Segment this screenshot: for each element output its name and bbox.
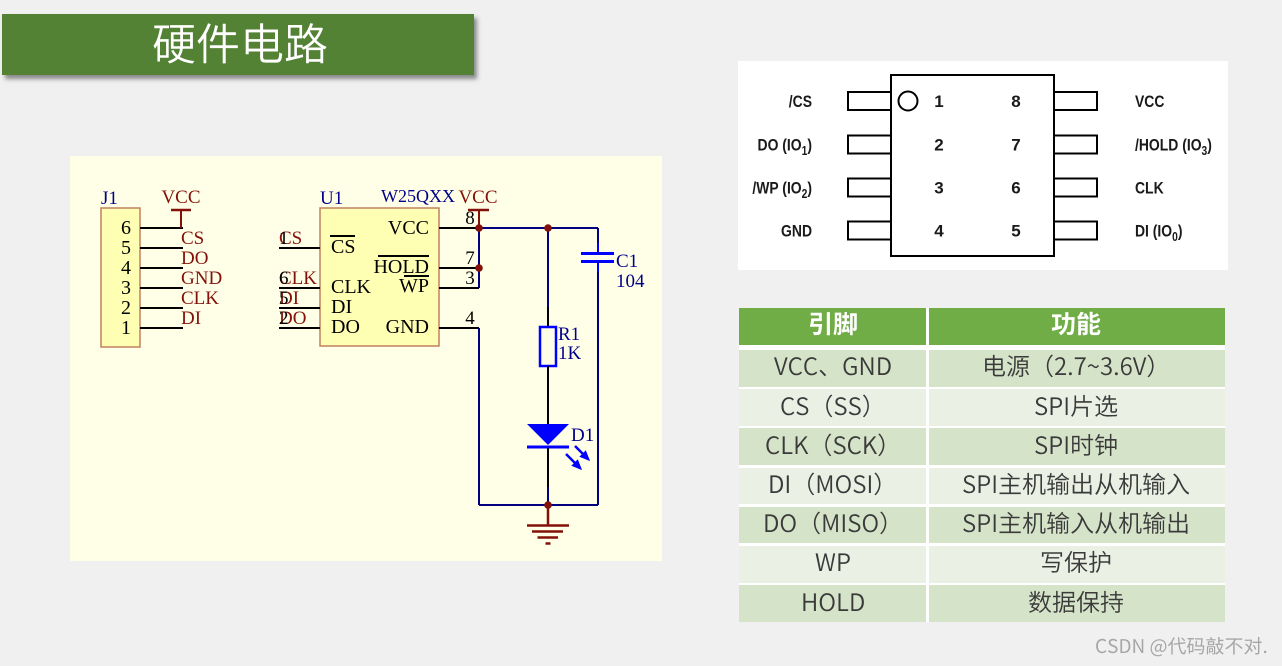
svg-text:VCC: VCC	[458, 187, 497, 208]
svg-text:GND: GND	[181, 268, 222, 289]
svg-text:J1: J1	[101, 188, 118, 209]
svg-text:7: 7	[465, 248, 475, 269]
svg-text:/HOLD (IO3): /HOLD (IO3)	[1135, 136, 1212, 158]
svg-text:CLK: CLK	[331, 276, 372, 298]
svg-text:4: 4	[121, 257, 131, 279]
svg-text:104: 104	[616, 271, 645, 292]
svg-text:DI (IO0): DI (IO0)	[1135, 222, 1182, 244]
svg-text:D1: D1	[571, 425, 594, 446]
svg-text:C1: C1	[616, 251, 638, 272]
svg-text:3: 3	[465, 268, 475, 289]
svg-text:5: 5	[121, 237, 131, 259]
svg-text:VCC: VCC	[1135, 93, 1164, 112]
svg-text:8: 8	[1011, 92, 1020, 111]
svg-text:U1: U1	[320, 188, 343, 209]
svg-text:/CS: /CS	[789, 93, 812, 112]
svg-text:1: 1	[121, 317, 131, 339]
svg-text:CLK: CLK	[181, 288, 219, 309]
svg-text:/WP (IO2): /WP (IO2)	[752, 179, 812, 201]
svg-text:4: 4	[934, 222, 944, 241]
svg-text:CS: CS	[181, 228, 204, 249]
svg-text:2: 2	[934, 136, 943, 155]
svg-text:CS: CS	[331, 236, 355, 258]
svg-text:DI: DI	[331, 296, 352, 318]
svg-text:6: 6	[279, 268, 289, 289]
svg-text:CLK: CLK	[1135, 179, 1164, 198]
svg-text:DO (IO1): DO (IO1)	[758, 136, 812, 158]
svg-text:DI: DI	[181, 308, 201, 329]
svg-text:1: 1	[279, 228, 289, 249]
svg-text:1K: 1K	[558, 343, 582, 364]
svg-text:6: 6	[121, 217, 131, 239]
svg-text:2: 2	[121, 297, 131, 319]
svg-text:6: 6	[1011, 179, 1020, 198]
svg-text:5: 5	[1011, 222, 1020, 241]
svg-text:7: 7	[1011, 136, 1020, 155]
svg-text:3: 3	[934, 179, 943, 198]
svg-text:4: 4	[465, 308, 475, 329]
svg-text:2: 2	[279, 308, 289, 329]
svg-text:VCC: VCC	[388, 217, 429, 239]
svg-text:DO: DO	[331, 316, 360, 338]
svg-text:W25QXX: W25QXX	[381, 186, 455, 206]
svg-text:WP: WP	[399, 275, 429, 297]
svg-text:R1: R1	[558, 324, 580, 345]
svg-text:3: 3	[121, 277, 131, 299]
svg-text:DO: DO	[181, 248, 208, 269]
svg-text:GND: GND	[386, 316, 429, 338]
svg-text:VCC: VCC	[161, 187, 200, 208]
svg-text:1: 1	[934, 92, 943, 111]
svg-text:GND: GND	[781, 222, 812, 241]
svg-text:5: 5	[279, 288, 289, 309]
